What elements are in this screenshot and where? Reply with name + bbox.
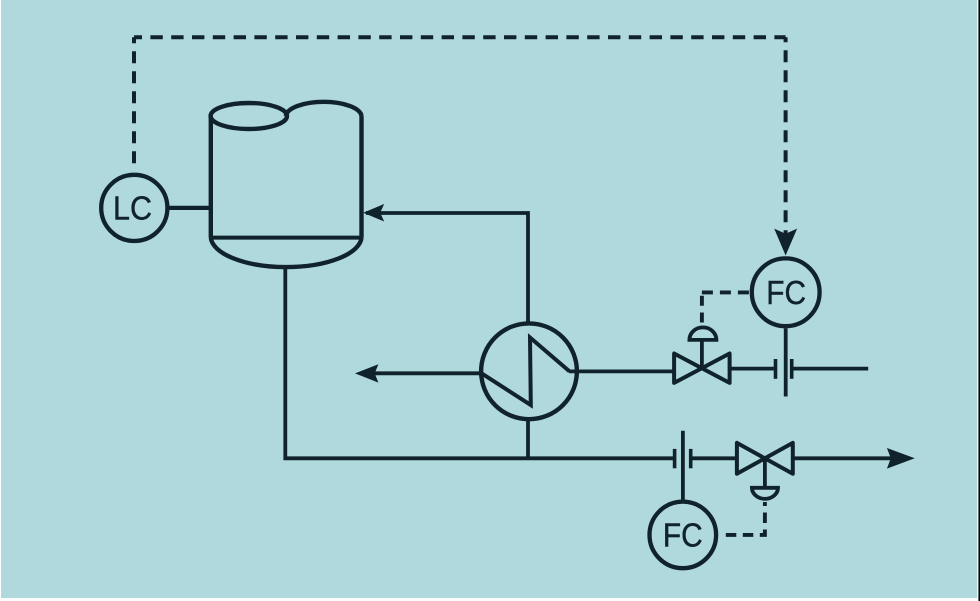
- pipe: heat exchanger to vessel inlet: [366, 213, 528, 322]
- control valve body (top): [674, 354, 730, 383]
- signal line (dashed): FC to top valve actuator, vertical: [700, 292, 704, 322]
- orifice tap line to FC (top): [784, 328, 788, 396]
- instrument FC (bottom flow controller): [650, 502, 717, 569]
- vessel right wall: [359, 116, 363, 238]
- instrument LC (level controller): [101, 175, 167, 241]
- actuator stem: [700, 340, 704, 368]
- vessel top ellipse (open lid): [211, 103, 287, 129]
- wire: LC tap to vessel: [167, 206, 210, 210]
- signal line (dashed): across the top: [134, 35, 786, 39]
- orifice tap line to FC (bottom): [681, 431, 685, 500]
- valve actuator diaphragm (bottom valve, inverted): [752, 458, 778, 499]
- valve actuator diaphragm (top valve): [689, 327, 716, 368]
- pipe: valve to orifice (top): [728, 367, 774, 371]
- orifice flow element (bottom): right flange bar: [689, 449, 693, 468]
- control valve body (bottom): [737, 443, 793, 474]
- vessel (tank): [211, 102, 362, 267]
- vessel dished bottom: [211, 238, 362, 267]
- signal line (dashed): bottom valve actuator down and left to FC: [720, 502, 765, 535]
- signal line (dashed): down to FC setpoint: [784, 37, 788, 247]
- pipe: vessel bottom outlet and bottom run: [285, 268, 673, 458]
- svg-text:LC: LC: [113, 190, 152, 227]
- instrument FC (top flow controller): [752, 258, 820, 326]
- vessel left wall: [209, 116, 213, 238]
- vessel top-right dome arc: [286, 102, 362, 116]
- bottom white strip: [0, 598, 978, 601]
- heat exchanger coil zigzag: [482, 338, 570, 406]
- arrowhead: left outlet: [355, 364, 378, 382]
- pipe: orifice to valve (bottom): [692, 456, 738, 460]
- pipe: heat exchanger bottom connection: [526, 419, 530, 458]
- arrowhead into FC (setpoint): [774, 229, 797, 256]
- svg-text:FC: FC: [663, 517, 703, 554]
- pipe: valve to product outlet (bottom): [791, 456, 893, 460]
- pipe: orifice to right end (top): [794, 367, 869, 371]
- pipe: heat exchanger left outlet: [373, 371, 482, 375]
- orifice flow element (top): left flange bar: [774, 359, 778, 379]
- heat exchanger: [481, 323, 577, 419]
- arrowhead into vessel: [363, 204, 384, 222]
- orifice flow element (bottom): left flange bar: [673, 449, 677, 468]
- actuator stem: [763, 458, 767, 488]
- pipe: heat exchanger to control valve (top run): [569, 369, 675, 373]
- svg-text:FC: FC: [766, 275, 806, 312]
- signal line (dashed): FC to top valve actuator, horizontal: [702, 290, 750, 294]
- vessel liquid level line: [211, 236, 362, 240]
- orifice flow element (top): right flange bar: [790, 359, 794, 379]
- signal line (dashed): LC up to top-left corner: [132, 37, 136, 168]
- arrowhead: product outlet: [887, 448, 915, 469]
